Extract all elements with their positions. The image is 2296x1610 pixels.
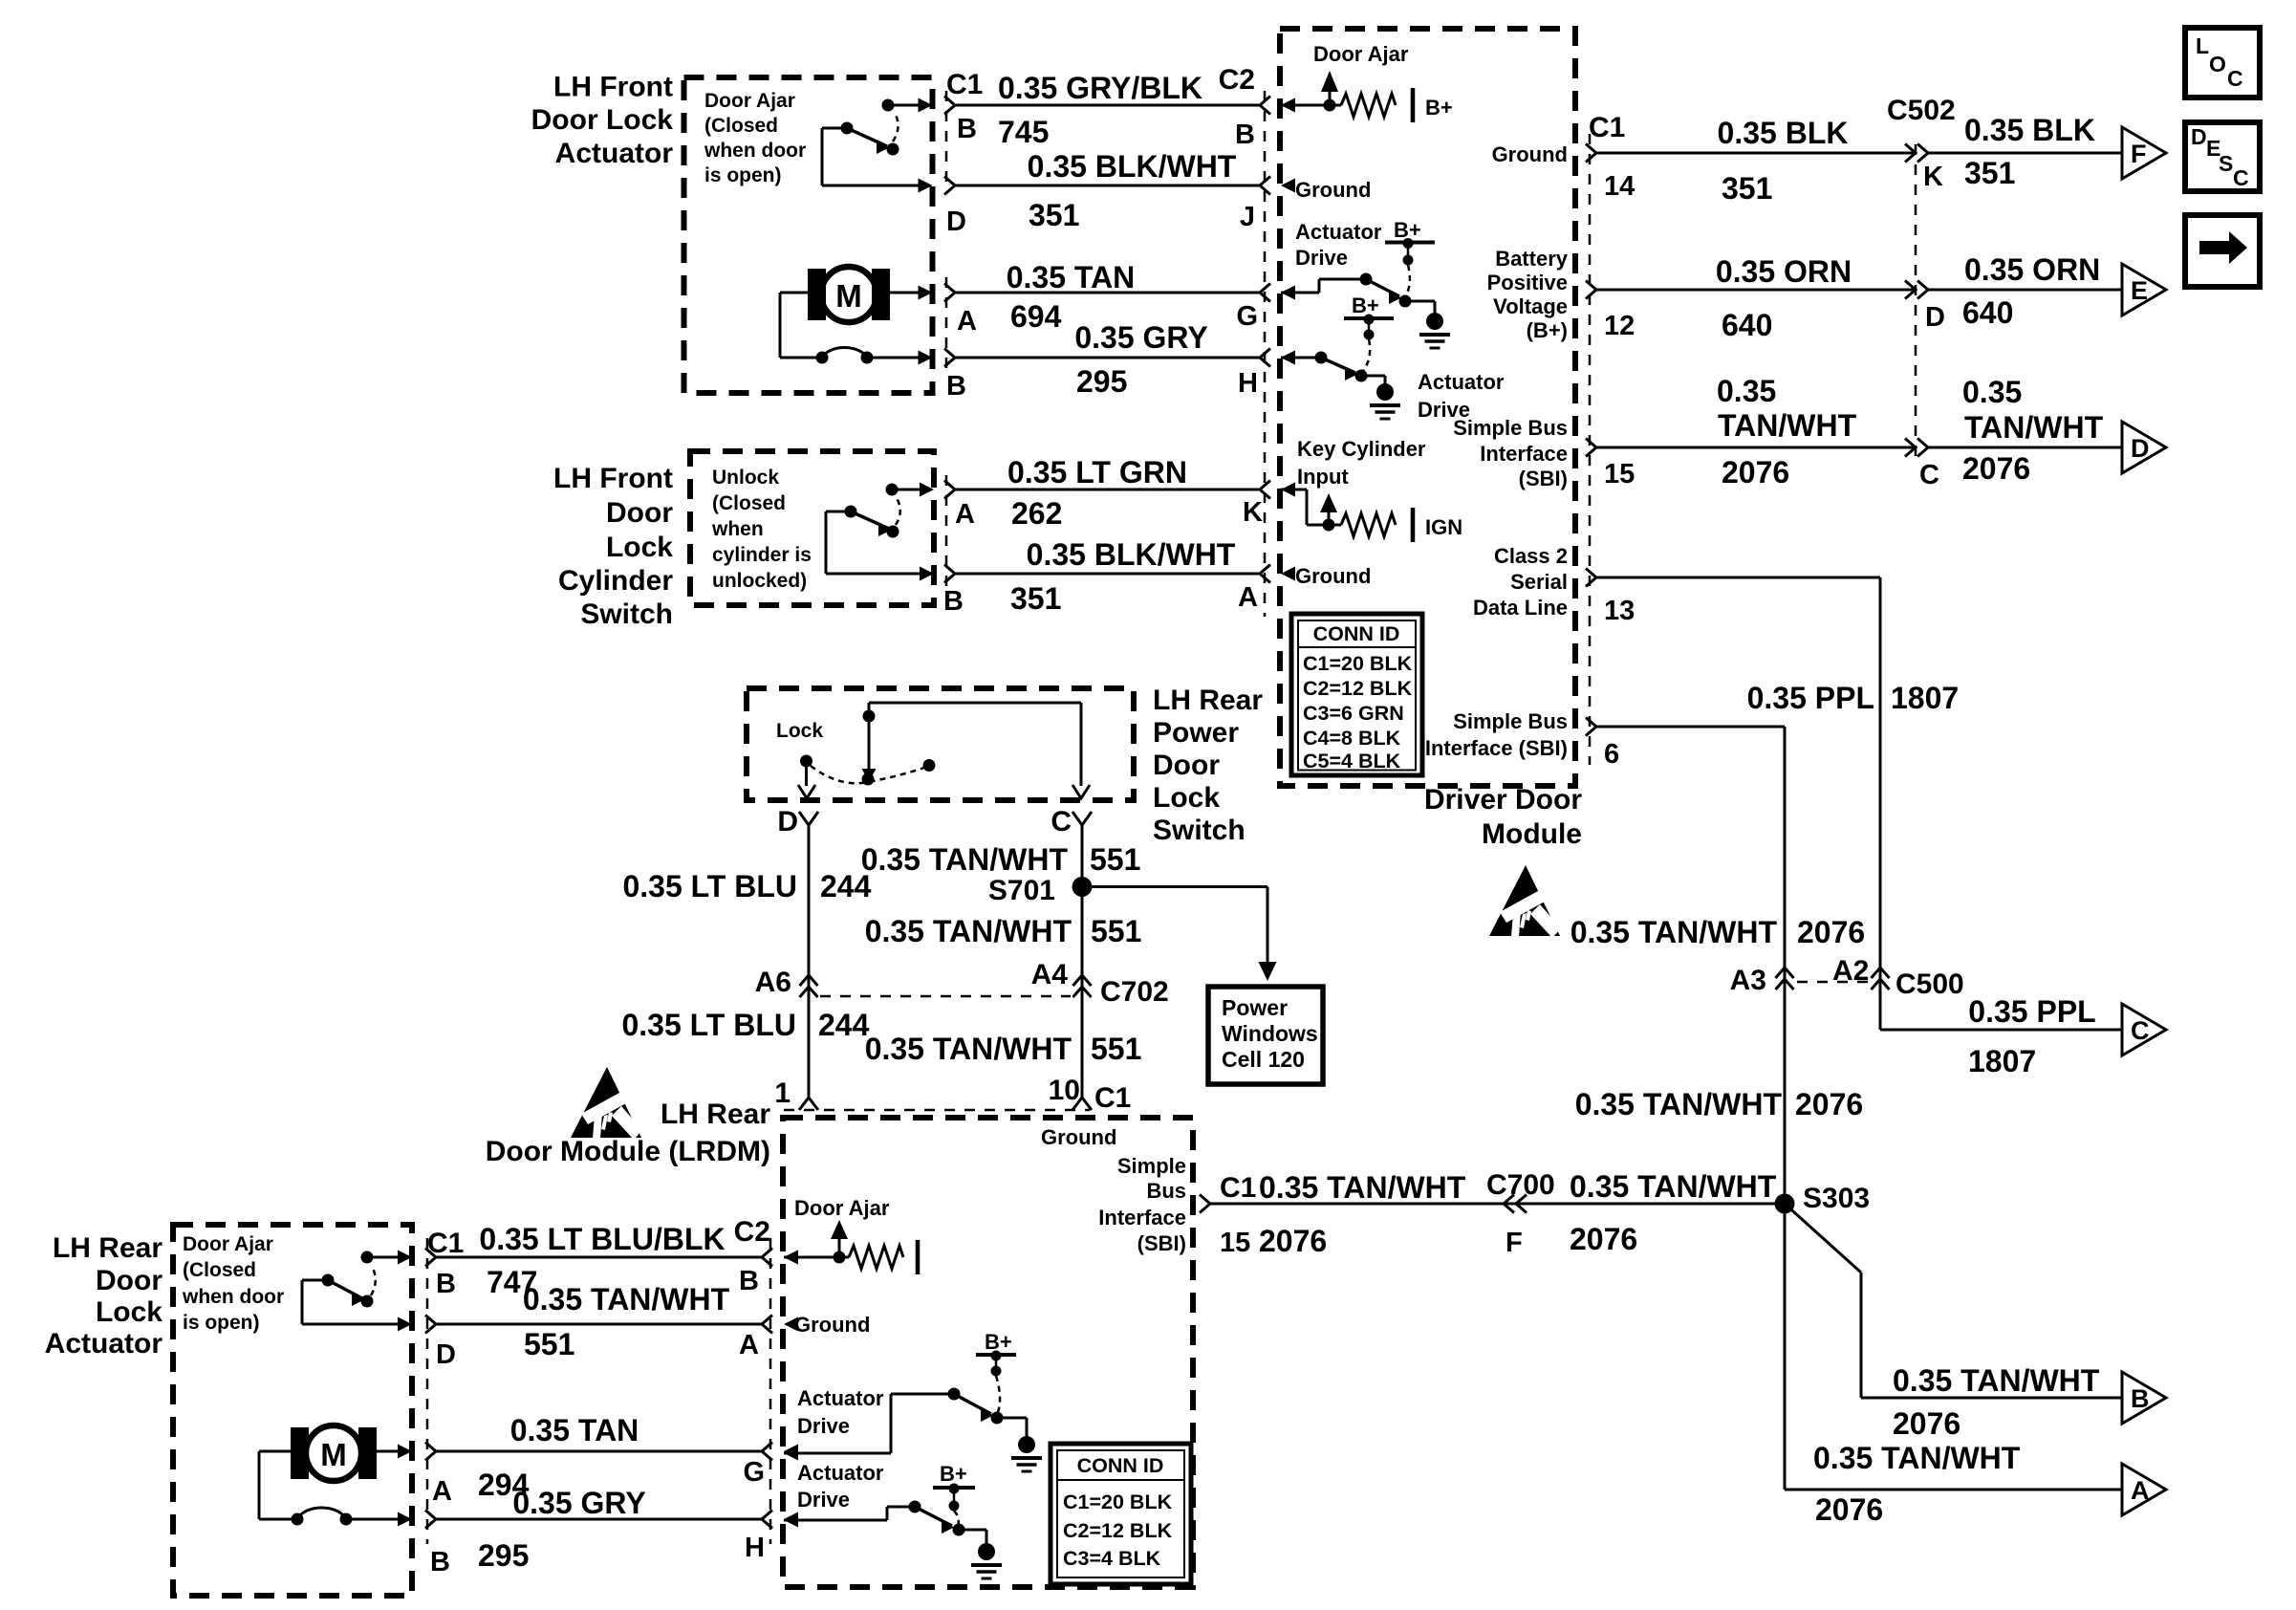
svg-text:(Closed: (Closed: [183, 1259, 256, 1281]
wire 0.35 LT BLU/BLK rear row 1: [425, 1249, 798, 1267]
component box LH Rear Door Lock Actuator: [173, 1225, 412, 1596]
svg-text:0.35 BLK/WHT: 0.35 BLK/WHT: [1028, 149, 1237, 184]
svg-text:Simple Bus: Simple Bus: [1453, 709, 1568, 733]
svg-text:Actuator: Actuator: [555, 138, 674, 169]
annotation Unlock (Closed when cylinder is unlocked): [711, 467, 812, 592]
svg-text:551: 551: [1091, 1032, 1141, 1066]
wire label 0.35 TAN/WHT 2076 (to A): [1813, 1441, 2021, 1527]
wire 0.35 LT BLU 244 (switch D to LRDM 1): [799, 812, 818, 1110]
svg-text:(Closed: (Closed: [712, 492, 786, 514]
wire 0.35 TAN/WHT 2076 (S303 to B): [1785, 1204, 2122, 1398]
actuator drive switch lower (LRDM): [784, 1501, 1002, 1579]
motor M (front actuator): [780, 267, 933, 365]
svg-text:Actuator: Actuator: [797, 1461, 884, 1485]
label Simple Bus Interface (SBI) pin 6: [1425, 709, 1568, 760]
svg-text:0.35 LT BLU/BLK: 0.35 LT BLU/BLK: [479, 1222, 725, 1256]
svg-text:LH Front: LH Front: [553, 72, 673, 103]
svg-text:Switch: Switch: [1153, 815, 1245, 846]
svg-text:Drive: Drive: [1295, 246, 1348, 270]
svg-text:C700: C700: [1486, 1169, 1555, 1201]
wire label 0.35 TAN/WHT 551 (middle): [865, 914, 1142, 948]
wire 0.35 GRY/BLK row 1: [944, 97, 1295, 115]
svg-text:0.35 TAN/WHT: 0.35 TAN/WHT: [1570, 1169, 1777, 1204]
svg-text:is open): is open): [183, 1312, 260, 1334]
wire 0.35 TAN/WHT 2076 (pin 15 to C502): [1586, 439, 1916, 457]
svg-text:351: 351: [1722, 171, 1772, 206]
svg-text:B: B: [430, 1547, 450, 1577]
svg-text:B: B: [943, 586, 964, 617]
wire 0.35 TAN/WHT 2076 (C502 to D): [1928, 446, 2122, 449]
svg-text:Door: Door: [1153, 750, 1220, 781]
svg-text:2076: 2076: [1722, 455, 1789, 490]
svg-text:G: G: [1236, 301, 1258, 332]
svg-text:Class 2: Class 2: [1494, 544, 1568, 568]
inline connector C702 (A6/A4): [800, 975, 1092, 997]
svg-text:O: O: [2209, 52, 2226, 76]
svg-text:Data Line: Data Line: [1473, 596, 1568, 620]
svg-text:A: A: [955, 499, 975, 530]
svg-text:IGN: IGN: [1425, 515, 1462, 539]
svg-text:C3=4 BLK: C3=4 BLK: [1063, 1547, 1161, 1570]
splice S701: [1072, 877, 1093, 897]
svg-text:Battery: Battery: [1495, 247, 1569, 271]
svg-text:0.35 TAN/WHT: 0.35 TAN/WHT: [865, 914, 1072, 948]
svg-text:Interface (SBI): Interface (SBI): [1425, 736, 1568, 760]
svg-text:A: A: [739, 1330, 759, 1360]
connector line (driver door module C2 side): [1264, 91, 1267, 617]
wire 0.35 BLK 351 (pin 14 to C502): [1586, 144, 1916, 163]
svg-text:0.35: 0.35: [1717, 374, 1776, 408]
wire 0.35 GRY row 4: [944, 349, 1295, 367]
svg-text:S701: S701: [988, 875, 1055, 906]
svg-text:Door Ajar: Door Ajar: [794, 1196, 890, 1220]
label Actuator Drive (LRDM pin G): [797, 1386, 884, 1438]
svg-text:cylinder is: cylinder is: [712, 544, 812, 566]
annotation Door Ajar (Closed when door is open): [704, 90, 806, 186]
svg-text:M: M: [320, 1437, 347, 1472]
B+ feed (LRDM upper switch): [976, 1330, 1016, 1412]
wire 0.35 TAN/WHT 2076 (SBI pin 6): [1586, 718, 1785, 1205]
svg-text:Driver Door: Driver Door: [1424, 784, 1582, 816]
svg-text:J: J: [1240, 202, 1255, 232]
B+ feed (upper actuator switch): [1385, 218, 1435, 296]
wire label 0.35 GRY 295: [1074, 320, 1207, 399]
label Actuator Drive (DDM pin H): [1418, 370, 1505, 422]
svg-text:6: 6: [1604, 739, 1619, 770]
inline connector C502 pin D: [1905, 281, 1928, 299]
svg-text:15: 15: [1604, 459, 1635, 490]
wire label 0.35 BLK 351 (right of C502): [1964, 113, 2095, 190]
svg-text:is open): is open): [704, 164, 782, 186]
svg-text:10: 10: [1049, 1075, 1080, 1106]
svg-text:A: A: [1238, 582, 1258, 613]
wire label 0.35 BLK 351 (left of C502): [1718, 116, 1849, 206]
wire label 0.35 PPL 1807: [1747, 681, 1960, 715]
splice S303: [1775, 1194, 1795, 1214]
svg-text:CONN ID: CONN ID: [1313, 622, 1400, 645]
label Actuator Drive (LRDM pin H): [797, 1461, 884, 1512]
svg-text:L: L: [2196, 33, 2209, 58]
label Simple Bus Interface (SBI) (LRDM): [1098, 1154, 1186, 1255]
svg-text:Actuator: Actuator: [45, 1328, 163, 1360]
wire label 0.35 TAN/WHT 2076 (left): [1717, 374, 1857, 490]
svg-text:0.35 TAN/WHT: 0.35 TAN/WHT: [1813, 1441, 2021, 1475]
wire label 0.35 LT BLU/BLK 747: [479, 1222, 725, 1299]
svg-text:1807: 1807: [1891, 681, 1959, 715]
svg-text:K: K: [1243, 497, 1263, 528]
svg-text:Drive: Drive: [797, 1488, 850, 1512]
svg-text:TAN/WHT: TAN/WHT: [1718, 408, 1857, 443]
svg-text:Door: Door: [96, 1265, 162, 1296]
svg-text:Actuator: Actuator: [1418, 370, 1505, 394]
svg-text:H: H: [1238, 368, 1258, 399]
arrow legend box: [2185, 215, 2260, 287]
svg-text:Drive: Drive: [797, 1414, 850, 1438]
svg-text:551: 551: [1091, 914, 1141, 948]
svg-text:S: S: [2219, 151, 2233, 176]
label LH Front Door Lock Cylinder Switch: [553, 463, 673, 630]
svg-text:2076: 2076: [1815, 1492, 1883, 1527]
wire label 0.35 LT BLU 244 (upper): [622, 869, 871, 903]
svg-text:0.35 BLK: 0.35 BLK: [1964, 113, 2095, 147]
svg-text:2076: 2076: [1893, 1406, 1960, 1441]
wire 0.35 GRY rear row 4: [425, 1511, 798, 1529]
svg-text:0.35 TAN: 0.35 TAN: [1007, 260, 1136, 294]
svg-text:Ground: Ground: [1295, 564, 1371, 588]
svg-text:0.35 BLK/WHT: 0.35 BLK/WHT: [1027, 537, 1236, 572]
svg-text:Windows: Windows: [1222, 1021, 1318, 1046]
wire label 0.35 ORN 640 (right): [1962, 252, 2100, 330]
svg-text:0.35 ORN: 0.35 ORN: [1964, 252, 2100, 287]
svg-text:0.35 BLK: 0.35 BLK: [1718, 116, 1849, 150]
svg-text:Input: Input: [1297, 465, 1349, 489]
svg-text:B: B: [957, 114, 977, 144]
svg-text:B: B: [1235, 120, 1255, 150]
svg-text:15: 15: [1220, 1228, 1250, 1258]
component box LH Rear Power Door Lock Switch: [747, 688, 1134, 800]
svg-text:0.35 TAN/WHT: 0.35 TAN/WHT: [865, 1032, 1072, 1066]
svg-text:A3: A3: [1730, 965, 1766, 996]
svg-text:(B+): (B+): [1527, 318, 1568, 342]
wire label 0.35 GRY/BLK 745: [998, 71, 1202, 149]
wire label 0.35 TAN/WHT 551 (rear): [523, 1282, 730, 1361]
svg-text:Lock: Lock: [606, 532, 673, 563]
svg-text:H: H: [745, 1533, 765, 1563]
CONN ID table (LRDM): [1051, 1444, 1191, 1584]
svg-text:C1=20 BLK: C1=20 BLK: [1303, 652, 1413, 675]
svg-text:2076: 2076: [1570, 1222, 1637, 1256]
component box Driver Door Module: [1280, 29, 1575, 786]
wire label 0.35 TAN/WHT 551 (lower): [865, 1032, 1142, 1066]
svg-text:when door: when door: [182, 1286, 284, 1308]
svg-text:0.35 GRY: 0.35 GRY: [512, 1486, 645, 1520]
wire label 0.35 TAN/WHT 2076 (to B): [1893, 1363, 2100, 1441]
svg-text:Ground: Ground: [794, 1313, 870, 1337]
svg-text:A: A: [957, 306, 977, 337]
wire 0.35 PPL 1807 (Class 2 serial data, pin 13): [1586, 569, 2122, 1031]
svg-text:C500: C500: [1895, 968, 1964, 1000]
label Driver Door Module: [1424, 784, 1582, 850]
rear lock switch mechanism: [798, 703, 1090, 798]
wire 0.35 BLK/WHT row 2: [944, 177, 1295, 195]
LOC legend box: [2185, 28, 2260, 98]
connector line (front actuator / cylinder switch side): [945, 91, 948, 191]
wire 0.35 TAN row 3: [944, 284, 1295, 302]
connector line (LRDM C2 side): [769, 1238, 772, 1544]
svg-text:C2=12 BLK: C2=12 BLK: [1303, 677, 1413, 700]
wire label 0.35 TAN/WHT 551 (upper): [861, 842, 1141, 877]
destination triangle E: [2122, 264, 2166, 315]
wire 0.35 ORN 640 (pin 12 to C502): [1586, 281, 1916, 299]
svg-text:Cell 120: Cell 120: [1222, 1047, 1305, 1072]
svg-text:Lock: Lock: [96, 1296, 162, 1328]
actuator drive switch upper (LRDM): [784, 1388, 1042, 1472]
inline connector C502 pin C: [1905, 439, 1928, 457]
wire label 0.35 PPL 1807 (to C): [1968, 994, 2096, 1078]
label LH Rear Power Door Lock Switch: [1153, 685, 1263, 846]
actuator drive switch upper (DDM): [1281, 273, 1450, 349]
svg-text:2076: 2076: [1962, 451, 2030, 486]
svg-text:A: A: [432, 1476, 452, 1507]
svg-text:2076: 2076: [1795, 1087, 1863, 1121]
svg-text:F: F: [2131, 140, 2147, 168]
svg-text:(Closed: (Closed: [704, 115, 778, 137]
svg-text:A: A: [2131, 1476, 2150, 1505]
connector line (LRDM top): [784, 1109, 1090, 1112]
wire 0.35 TAN/WHT 2076 (C700 row): [1200, 1195, 1785, 1213]
wire 0.35 BLK 351 (C502 to F): [1928, 152, 2122, 155]
svg-text:1807: 1807: [1968, 1044, 2036, 1078]
B+ feed (LRDM lower switch): [933, 1462, 975, 1526]
wire 0.35 BLK/WHT row 6: [944, 565, 1295, 583]
inline connector C502: [1905, 144, 1928, 461]
wire label 0.35 BLK/WHT 351 (cylinder): [1010, 537, 1236, 616]
wire label 0.35 TAN/WHT 2076 (above C500): [1570, 915, 1866, 949]
svg-text:B+: B+: [985, 1330, 1012, 1354]
label LH Rear Door Lock Actuator: [45, 1232, 163, 1360]
svg-text:C: C: [2227, 66, 2243, 91]
annotation Door Ajar (Closed when door is open) rear: [182, 1233, 284, 1334]
svg-text:551: 551: [524, 1327, 574, 1361]
svg-text:2076: 2076: [1259, 1224, 1327, 1258]
connector line (rear actuator side): [426, 1238, 429, 1544]
door ajar switch (rear actuator): [302, 1251, 412, 1332]
svg-text:551: 551: [1090, 842, 1140, 877]
svg-text:13: 13: [1604, 596, 1635, 626]
svg-text:D: D: [777, 806, 798, 838]
svg-text:0.35 GRY: 0.35 GRY: [1074, 320, 1207, 355]
svg-text:Lock: Lock: [776, 720, 823, 742]
svg-text:C3=6 GRN: C3=6 GRN: [1303, 702, 1404, 725]
wire label 0.35 TAN/WHT 2076 (right): [1962, 375, 2104, 486]
svg-text:Actuator: Actuator: [797, 1386, 884, 1410]
svg-text:0.35 PPL: 0.35 PPL: [1747, 681, 1874, 715]
svg-text:C: C: [2131, 1016, 2150, 1045]
svg-text:LH Rear: LH Rear: [661, 1099, 770, 1130]
svg-text:295: 295: [478, 1538, 529, 1573]
label Simple Bus Interface (SBI) pin 15: [1453, 416, 1568, 490]
svg-text:0.35 TAN/WHT: 0.35 TAN/WHT: [523, 1282, 730, 1316]
svg-text:A2: A2: [1832, 955, 1869, 987]
svg-text:CONN ID: CONN ID: [1077, 1454, 1164, 1477]
label LH Front Door Lock Actuator: [531, 72, 674, 170]
svg-text:Door Ajar: Door Ajar: [1313, 42, 1409, 66]
svg-text:Actuator: Actuator: [1295, 220, 1382, 244]
motor M (rear actuator): [259, 1425, 412, 1527]
svg-text:(SBI): (SBI): [1137, 1231, 1186, 1255]
wire 0.35 LT GRN row 5: [944, 481, 1295, 499]
svg-text:351: 351: [1029, 198, 1079, 232]
svg-text:LH Front: LH Front: [553, 463, 673, 494]
svg-text:A4: A4: [1031, 959, 1069, 990]
wire label 0.35 BLK/WHT 351: [1028, 149, 1237, 232]
svg-text:Voltage: Voltage: [1493, 294, 1568, 318]
svg-text:C702: C702: [1100, 976, 1169, 1008]
svg-text:Cylinder: Cylinder: [558, 565, 673, 597]
svg-text:when: when: [711, 518, 764, 540]
label Battery Positive Voltage (B+): [1487, 247, 1569, 342]
inline connector C500 (A3/A2): [1776, 968, 1890, 990]
destination triangle D: [2122, 422, 2166, 473]
svg-text:LH Rear: LH Rear: [53, 1232, 162, 1264]
svg-text:Key Cylinder: Key Cylinder: [1297, 437, 1426, 461]
component box LH Rear Door Module (LRDM): [783, 1118, 1193, 1587]
svg-text:Switch: Switch: [580, 598, 673, 630]
svg-text:B: B: [2131, 1384, 2150, 1413]
svg-text:S303: S303: [1803, 1183, 1870, 1214]
svg-text:(SBI): (SBI): [1519, 467, 1568, 490]
component box LH Front Door Lock Actuator: [684, 77, 933, 393]
svg-text:0.35 LT BLU: 0.35 LT BLU: [621, 1008, 796, 1042]
svg-text:B: B: [436, 1269, 456, 1299]
svg-text:B+: B+: [940, 1462, 967, 1486]
DESC legend box: [2185, 122, 2260, 191]
svg-text:Bus: Bus: [1146, 1179, 1186, 1203]
svg-text:Door Ajar: Door Ajar: [704, 90, 795, 112]
svg-text:D: D: [1925, 302, 1945, 333]
Power Windows Cell 120 box: [1208, 987, 1323, 1084]
svg-text:Lock: Lock: [1153, 782, 1220, 814]
label Key Cylinder Input: [1297, 437, 1426, 489]
label Class 2 Serial Data Line: [1473, 544, 1568, 620]
svg-text:C1=20 BLK: C1=20 BLK: [1063, 1490, 1173, 1513]
svg-text:12: 12: [1604, 311, 1635, 341]
svg-text:K: K: [1923, 162, 1943, 192]
svg-text:Door Ajar: Door Ajar: [183, 1233, 273, 1255]
door ajar resistor to B+ (DDM): [1281, 71, 1413, 122]
svg-text:B: B: [946, 371, 966, 402]
svg-text:C1: C1: [1094, 1082, 1131, 1114]
destination triangle C: [2122, 1004, 2166, 1055]
svg-text:2076: 2076: [1797, 915, 1865, 949]
svg-text:1: 1: [774, 1077, 791, 1109]
svg-text:D: D: [946, 207, 966, 237]
svg-text:0.35 TAN/WHT: 0.35 TAN/WHT: [861, 842, 1069, 877]
svg-text:C4=8 BLK: C4=8 BLK: [1303, 727, 1401, 750]
svg-text:C502: C502: [1887, 95, 1956, 126]
wire label 0.35 LT GRN 262: [1007, 455, 1187, 531]
svg-text:B+: B+: [1425, 96, 1453, 120]
svg-text:M: M: [835, 278, 862, 314]
svg-text:Serial: Serial: [1510, 570, 1568, 594]
svg-text:244: 244: [820, 869, 872, 903]
svg-text:262: 262: [1011, 496, 1062, 531]
svg-text:351: 351: [1010, 581, 1061, 616]
wire label 0.35 TAN/WHT 2076 (LRDM to C700): [1259, 1170, 1466, 1258]
svg-text:C: C: [2233, 165, 2249, 190]
svg-text:0.35 ORN: 0.35 ORN: [1716, 254, 1852, 289]
door ajar resistor (LRDM): [784, 1220, 918, 1274]
inline connector C700: [1504, 1195, 1527, 1213]
svg-text:Power: Power: [1153, 717, 1239, 749]
svg-text:E: E: [2131, 276, 2148, 305]
svg-text:G: G: [743, 1457, 765, 1488]
svg-text:Interface: Interface: [1098, 1206, 1186, 1229]
svg-text:F: F: [1505, 1228, 1523, 1258]
svg-text:Door Module (LRDM): Door Module (LRDM): [486, 1136, 770, 1167]
svg-text:C1: C1: [1589, 112, 1625, 143]
wire S701 branch to Power Windows: [1082, 887, 1277, 982]
wire label 0.35 GRY 295 (rear): [478, 1486, 646, 1573]
wire label 0.35 TAN 694: [1007, 260, 1136, 334]
svg-text:D: D: [436, 1339, 456, 1370]
svg-text:Simple Bus: Simple Bus: [1453, 416, 1568, 440]
wire 0.35 ORN 640 (C502 to E): [1928, 289, 2122, 292]
svg-text:0.35 LT BLU: 0.35 LT BLU: [622, 869, 797, 903]
svg-text:D: D: [2131, 434, 2150, 463]
svg-text:unlocked): unlocked): [712, 570, 807, 592]
destination triangle B: [2122, 1372, 2166, 1424]
wire 0.35 TAN/WHT rear row 2: [425, 1316, 798, 1334]
svg-text:0.35 TAN: 0.35 TAN: [510, 1413, 639, 1447]
svg-text:745: 745: [998, 115, 1049, 149]
svg-text:0.35 PPL: 0.35 PPL: [1968, 994, 2095, 1029]
B+ feed (lower actuator switch): [1344, 294, 1394, 371]
svg-text:Ground: Ground: [1041, 1125, 1116, 1149]
ESD symbol (Driver Door Module): [1489, 865, 1561, 938]
svg-text:0.35 TAN/WHT: 0.35 TAN/WHT: [1575, 1087, 1783, 1121]
svg-text:C2: C2: [734, 1216, 770, 1248]
wire label 0.35 LT BLU 244 (lower): [621, 1008, 869, 1042]
unlock switch (cylinder): [826, 483, 934, 581]
svg-text:C2=12 BLK: C2=12 BLK: [1063, 1519, 1173, 1542]
wire 0.35 TAN rear row 3: [425, 1443, 798, 1461]
svg-text:Door: Door: [606, 497, 673, 529]
svg-text:Power: Power: [1222, 995, 1288, 1020]
svg-text:Ground: Ground: [1492, 142, 1568, 166]
svg-text:Simple: Simple: [1117, 1154, 1186, 1178]
wire label 0.35 TAN/WHT 2076 (below A3): [1575, 1087, 1864, 1121]
svg-text:0.35 TAN/WHT: 0.35 TAN/WHT: [1259, 1170, 1466, 1205]
svg-text:LH Rear: LH Rear: [1153, 685, 1263, 716]
svg-text:694: 694: [1010, 299, 1062, 334]
svg-text:640: 640: [1962, 295, 2013, 330]
wire label 0.35 ORN 640 (left): [1716, 254, 1852, 342]
svg-text:C: C: [1919, 460, 1939, 490]
destination triangle F: [2122, 127, 2166, 179]
svg-text:C1: C1: [946, 69, 983, 100]
svg-text:244: 244: [818, 1008, 870, 1042]
label LH Rear Door Module (LRDM): [486, 1099, 771, 1167]
CONN ID table (DDM): [1291, 614, 1422, 775]
ESD symbol (LRDM): [571, 1067, 642, 1140]
svg-text:Positive: Positive: [1487, 271, 1568, 294]
svg-text:0.35 GRY/BLK: 0.35 GRY/BLK: [998, 71, 1202, 105]
svg-text:C1: C1: [1220, 1172, 1256, 1204]
wire 0.35 TAN/WHT 551 (switch C to LRDM 10): [1072, 812, 1092, 1110]
wire 0.35 TAN/WHT 2076 (S303 to A): [1785, 1204, 2122, 1490]
svg-text:Interface: Interface: [1480, 442, 1568, 466]
